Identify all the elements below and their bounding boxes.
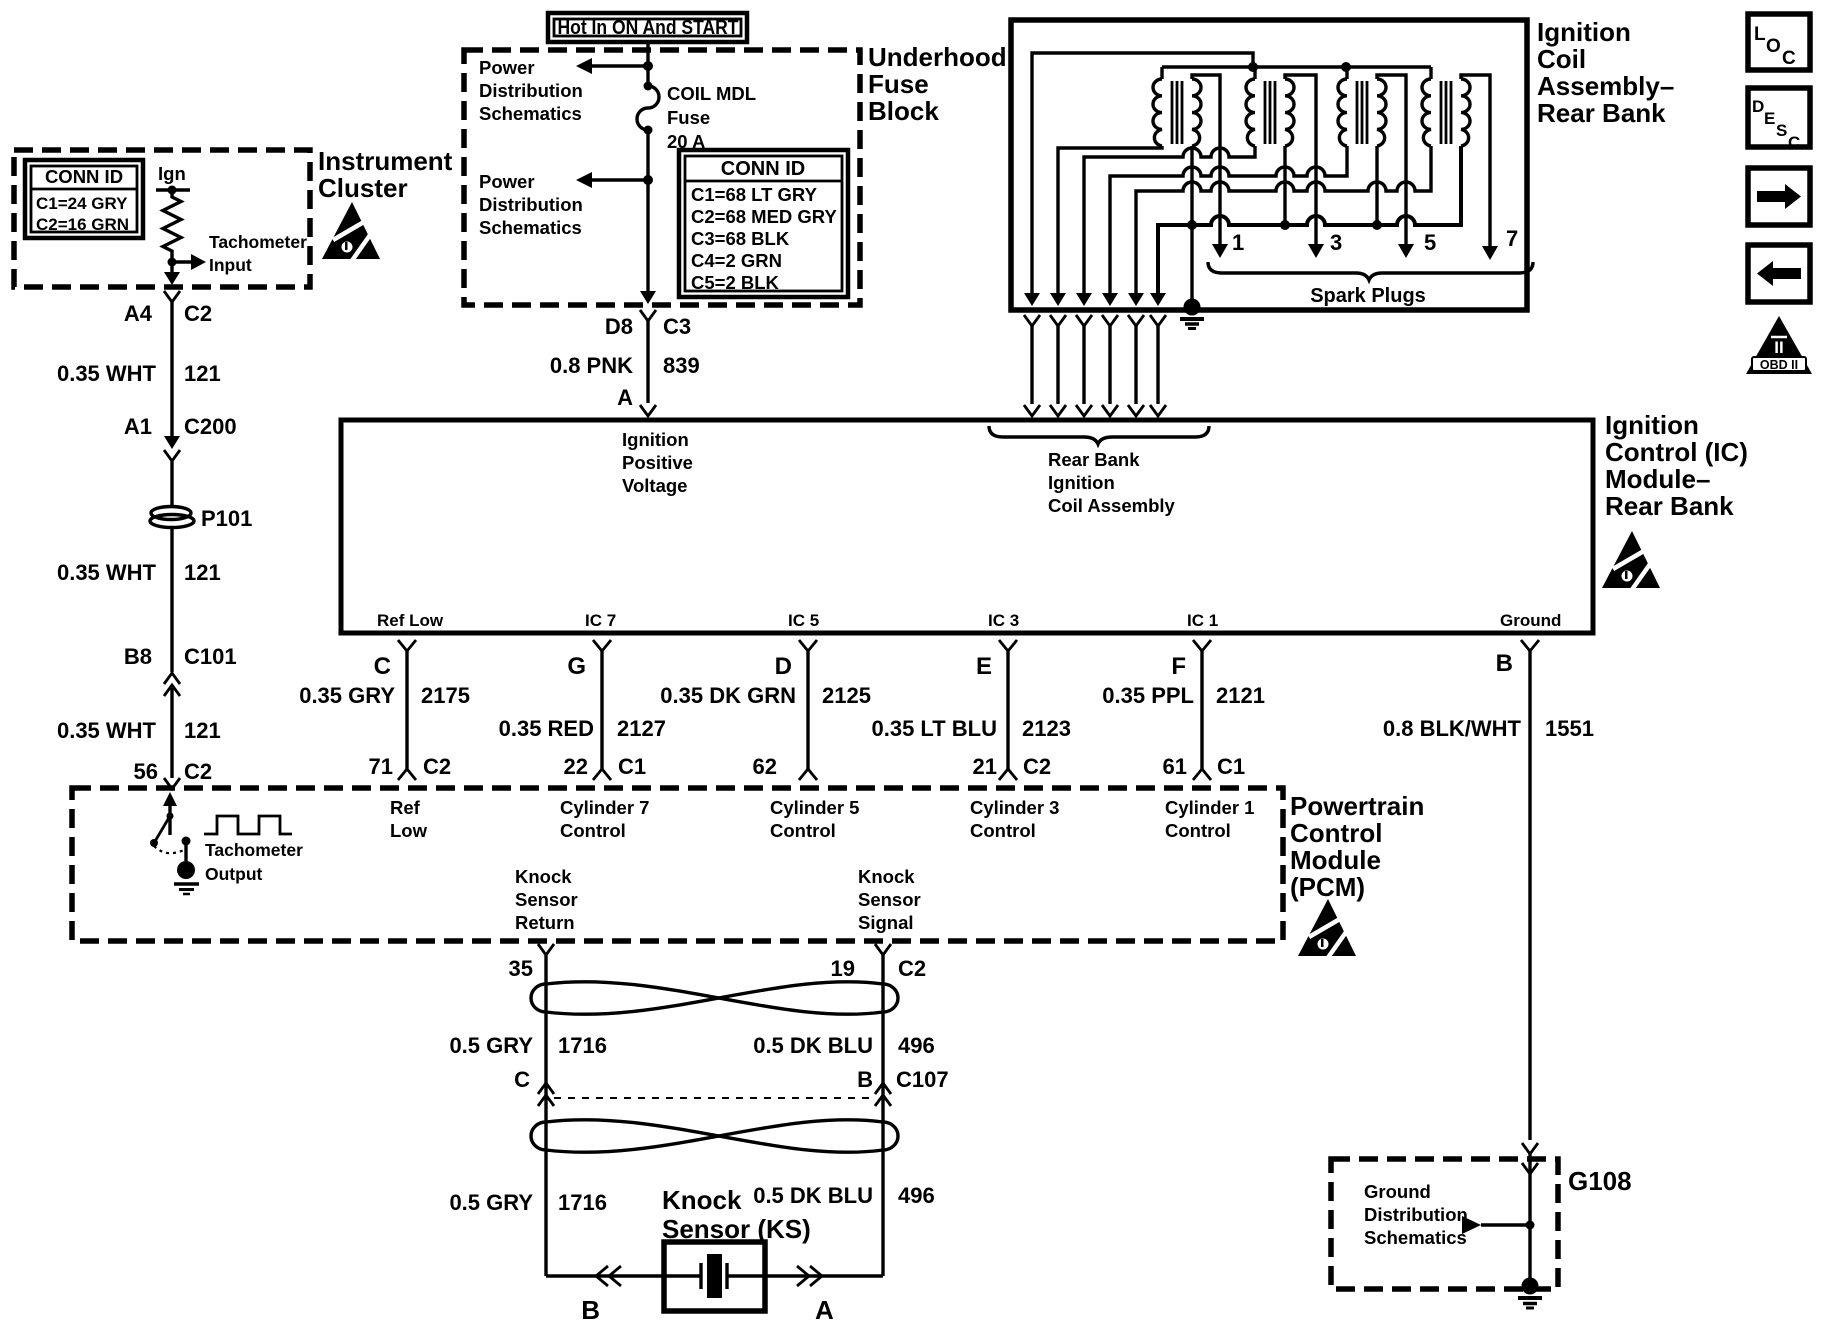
coil harness arrows at box bottom [1024, 293, 1166, 306]
svg-text:Ignition: Ignition [622, 429, 689, 450]
svg-text:Schematics: Schematics [479, 217, 582, 238]
svg-text:C101: C101 [184, 644, 237, 669]
svg-text:0.35 WHT: 0.35 WHT [57, 361, 157, 386]
coil harness pins into IC module [1024, 405, 1166, 416]
svg-text:E: E [976, 653, 992, 680]
wire labels 1716 / 496 upper [449, 1033, 948, 1092]
wire coil T3 control [1110, 146, 1347, 303]
svg-text:C2: C2 [184, 301, 212, 326]
svg-text:Fuse: Fuse [667, 107, 710, 128]
spark plug wire arrows [1212, 226, 1518, 260]
svg-text:Hot In ON And START: Hot In ON And START [558, 17, 739, 39]
wire from hot box [646, 42, 649, 84]
svg-text:1716: 1716 [558, 1033, 607, 1058]
svg-text:Input: Input [209, 255, 252, 275]
svg-text:Cylinder 3: Cylinder 3 [970, 797, 1059, 818]
svg-text:Ground: Ground [1364, 1181, 1431, 1202]
svg-text:E: E [1764, 109, 1775, 128]
svg-text:61: 61 [1163, 754, 1187, 779]
wire 121 segment 2 [57, 527, 237, 672]
svg-text:Cylinder 5: Cylinder 5 [770, 797, 859, 818]
knock sensor return wire top [509, 944, 554, 1276]
svg-text:Low: Low [390, 820, 428, 841]
wire 839 PNK [550, 321, 700, 410]
svg-text:71: 71 [369, 754, 393, 779]
svg-text:3: 3 [1330, 230, 1342, 255]
svg-text:0.35 WHT: 0.35 WHT [57, 560, 157, 585]
ignition coil T4 (plug 7) [1422, 67, 1490, 249]
wire coil feed 1 [1032, 53, 1253, 303]
svg-text:2175: 2175 [421, 683, 470, 708]
svg-text:C1=68 LT GRY: C1=68 LT GRY [691, 184, 818, 205]
brace rear bank coil assembly [989, 426, 1209, 516]
label Underhood Fuse Block [868, 42, 1007, 126]
svg-text:IC 1: IC 1 [1187, 611, 1218, 630]
spark plugs brace [1208, 262, 1533, 307]
svg-text:Rear Bank: Rear Bank [1048, 449, 1140, 470]
knock sensor signal wire top [831, 944, 927, 1276]
twisted pair 1 [531, 982, 898, 1015]
svg-text:A: A [815, 1295, 834, 1325]
svg-text:OBD II: OBD II [1760, 358, 1798, 372]
svg-text:Control: Control [1165, 820, 1231, 841]
svg-text:0.35 WHT: 0.35 WHT [57, 718, 157, 743]
svg-text:0.35 GRY: 0.35 GRY [299, 683, 395, 708]
label Ignition Coil Assembly Rear Bank [1537, 17, 1674, 128]
icon arrow right [1748, 168, 1810, 225]
svg-text:A1: A1 [124, 414, 152, 439]
svg-text:Rear Bank: Rear Bank [1605, 491, 1734, 521]
pin A into IC module [640, 405, 656, 416]
wire below fuse [646, 130, 649, 295]
svg-text:Rear Bank: Rear Bank [1537, 98, 1666, 128]
svg-text:Control: Control [770, 820, 836, 841]
svg-text:0.5 DK BLU: 0.5 DK BLU [753, 1183, 873, 1208]
wire coil T2 control [1084, 146, 1255, 303]
svg-text:IC 7: IC 7 [585, 611, 616, 630]
svg-text:121: 121 [184, 718, 221, 743]
label Ground Distribution Schematics [1364, 1181, 1468, 1248]
svg-text:Cylinder 7: Cylinder 7 [560, 797, 649, 818]
svg-text:S: S [1776, 121, 1787, 140]
power distribution tap 1 [479, 57, 653, 124]
svg-text:0.35 RED: 0.35 RED [499, 716, 594, 741]
ignition coil assembly box [1011, 20, 1527, 310]
wire out of instrument cluster [164, 262, 180, 285]
svg-text:Block: Block [868, 96, 939, 126]
label Ignition Control (IC) Module Rear Bank [1605, 410, 1748, 521]
svg-text:A: A [617, 385, 633, 410]
svg-text:A4: A4 [124, 301, 153, 326]
svg-text:(PCM): (PCM) [1290, 872, 1365, 902]
svg-text:C1: C1 [618, 754, 646, 779]
svg-text:121: 121 [184, 361, 221, 386]
svg-text:Positive: Positive [622, 452, 693, 473]
svg-text:0.5 DK BLU: 0.5 DK BLU [753, 1033, 873, 1058]
wire 121 segment 1 [57, 301, 237, 439]
svg-text:Cylinder 1: Cylinder 1 [1165, 797, 1254, 818]
svg-text:C107: C107 [896, 1067, 949, 1092]
svg-text:D: D [1752, 97, 1764, 116]
wire coil T4 control [1136, 146, 1431, 303]
svg-text:Control: Control [970, 820, 1036, 841]
ignition coil T2 (plug 3) [1246, 67, 1316, 247]
square wave glyph [204, 816, 303, 884]
svg-text:C4=2 GRN: C4=2 GRN [691, 250, 782, 271]
CONN ID table (underhood fuse block) [679, 150, 848, 297]
svg-text:Assembly–: Assembly– [1537, 71, 1674, 101]
svg-text:Distribution: Distribution [479, 194, 583, 215]
svg-text:496: 496 [898, 1033, 935, 1058]
coil harness connectors below box [1024, 315, 1166, 326]
svg-text:Ground: Ground [1500, 611, 1561, 630]
svg-text:C: C [514, 1067, 530, 1092]
svg-text:G: G [567, 653, 586, 680]
svg-text:Output: Output [205, 864, 263, 884]
svg-text:C: C [374, 653, 391, 680]
svg-text:0.35 PPL: 0.35 PPL [1102, 683, 1194, 708]
svg-text:Voltage: Voltage [622, 475, 687, 496]
splice P101 [150, 506, 252, 531]
svg-text:IC 5: IC 5 [788, 611, 819, 630]
connector C101 [164, 673, 180, 696]
svg-text:G108: G108 [1568, 1166, 1632, 1196]
svg-text:Knock: Knock [662, 1185, 742, 1215]
svg-text:5: 5 [1424, 230, 1436, 255]
svg-text:Knock: Knock [515, 866, 572, 887]
svg-text:Schematics: Schematics [479, 103, 582, 124]
label Knock Sensor (KS) [662, 1185, 811, 1244]
svg-text:Ignition: Ignition [1605, 410, 1699, 440]
pin C wire 2175 [299, 640, 470, 780]
svg-text:0.35 DK GRN: 0.35 DK GRN [660, 683, 796, 708]
svg-text:1716: 1716 [558, 1190, 607, 1215]
svg-text:Coil Assembly: Coil Assembly [1048, 495, 1176, 516]
label Powertrain Control Module (PCM) [1290, 791, 1424, 902]
svg-text:Module: Module [1290, 845, 1381, 875]
connector C200 [164, 436, 180, 461]
svg-text:0.8 BLK/WHT: 0.8 BLK/WHT [1383, 716, 1522, 741]
svg-text:35: 35 [509, 956, 533, 981]
connector C107 [538, 1083, 891, 1106]
svg-text:C200: C200 [184, 414, 237, 439]
svg-text:0.8 PNK: 0.8 PNK [550, 353, 633, 378]
PCM pin function labels [390, 797, 1254, 933]
svg-text:496: 496 [898, 1183, 935, 1208]
svg-text:C3=68 BLK: C3=68 BLK [691, 228, 790, 249]
label Instrument Cluster [318, 146, 453, 203]
svg-text:Tachometer: Tachometer [205, 840, 303, 860]
connector D8/C3 [605, 310, 691, 339]
svg-text:Distribution: Distribution [479, 80, 583, 101]
tachometer input arrow [168, 232, 308, 275]
icon LOC [1748, 14, 1810, 70]
knock sensor box [664, 1242, 765, 1311]
icon arrow left [1748, 245, 1810, 302]
svg-text:2121: 2121 [1216, 683, 1265, 708]
svg-text:Power: Power [479, 57, 535, 78]
svg-text:B8: B8 [124, 644, 152, 669]
svg-text:B: B [581, 1295, 600, 1325]
IC pin name labels [377, 611, 1561, 630]
svg-text:121: 121 [184, 560, 221, 585]
knock sensor bottom wires [546, 1274, 883, 1277]
IC module box [341, 420, 1593, 633]
instrument cluster dashed box [14, 150, 310, 287]
svg-text:Tachometer: Tachometer [209, 232, 307, 252]
pin B wire 1551 BLK/WHT [1383, 640, 1594, 1140]
svg-text:62: 62 [753, 754, 777, 779]
svg-text:C2: C2 [1023, 754, 1051, 779]
svg-text:F: F [1171, 653, 1186, 680]
svg-text:C2=68 MED GRY: C2=68 MED GRY [691, 206, 837, 227]
svg-text:O: O [1766, 36, 1781, 57]
icon DESC [1748, 88, 1810, 152]
CONN ID table (instrument cluster) [25, 160, 143, 238]
svg-text:C2: C2 [898, 956, 926, 981]
underhood fuse block dashed box [464, 50, 860, 305]
piezo element [664, 1254, 765, 1298]
svg-text:0.5 GRY: 0.5 GRY [449, 1033, 533, 1058]
svg-text:22: 22 [564, 754, 588, 779]
svg-text:Ignition: Ignition [1048, 472, 1115, 493]
svg-text:IC 3: IC 3 [988, 611, 1019, 630]
svg-text:2127: 2127 [617, 716, 666, 741]
pin D wire 2125 [660, 640, 871, 780]
power distribution tap 2 [479, 171, 653, 238]
node Ign [156, 163, 190, 195]
svg-text:Coil: Coil [1537, 44, 1586, 74]
fuse COIL MDL 20 A [637, 82, 756, 153]
svg-text:Distribution: Distribution [1364, 1204, 1468, 1225]
ground G108 [1518, 1278, 1542, 1309]
wire coil T1 control [1058, 146, 1162, 303]
svg-text:B: B [857, 1067, 873, 1092]
svg-text:C: C [1782, 48, 1796, 69]
ESD symbol (PCM) [1298, 899, 1356, 959]
svg-text:P101: P101 [201, 506, 252, 531]
svg-text:Power: Power [479, 171, 535, 192]
connector into G108 [1522, 1143, 1538, 1174]
svg-text:56: 56 [134, 759, 158, 784]
svg-text:C2: C2 [184, 759, 212, 784]
svg-text:C2: C2 [423, 754, 451, 779]
svg-text:Fuse: Fuse [868, 69, 929, 99]
wire secondary ground bus [1158, 146, 1461, 303]
svg-text:2123: 2123 [1022, 716, 1071, 741]
svg-text:Sensor: Sensor [858, 889, 921, 910]
tachometer output driver [150, 792, 199, 894]
resistor (tachometer input) [163, 190, 181, 258]
coil assembly ground [1180, 225, 1204, 329]
svg-text:Control (IC): Control (IC) [1605, 437, 1748, 467]
svg-text:II: II [1774, 338, 1783, 357]
svg-text:Spark Plugs: Spark Plugs [1310, 285, 1426, 307]
svg-text:CONN ID: CONN ID [45, 166, 123, 187]
ignition coil T1 (plug 1) [1153, 67, 1220, 247]
svg-text:0.5 GRY: 0.5 GRY [449, 1190, 533, 1215]
svg-text:0.35 LT BLU: 0.35 LT BLU [871, 716, 997, 741]
svg-text:Ref Low: Ref Low [377, 611, 444, 630]
svg-text:19: 19 [831, 956, 855, 981]
svg-text:Control: Control [1290, 818, 1382, 848]
svg-text:7: 7 [1506, 226, 1518, 251]
pin E wire 2123 [871, 640, 1070, 780]
svg-text:D8: D8 [605, 314, 633, 339]
svg-text:C1=24 GRY: C1=24 GRY [36, 194, 128, 213]
wire into ground [1528, 1154, 1531, 1280]
svg-text:Module–: Module– [1605, 464, 1710, 494]
svg-text:C2=16 GRN: C2=16 GRN [36, 215, 129, 234]
coil harness wires to IC module [1032, 326, 1158, 404]
terminal A arrows [797, 1266, 834, 1325]
svg-text:CONN ID: CONN ID [721, 158, 805, 180]
svg-text:Knock: Knock [858, 866, 915, 887]
wire labels 1716 / 496 lower [449, 1183, 934, 1215]
svg-text:Control: Control [560, 820, 626, 841]
ignition coil T3 (plug 5) [1338, 67, 1406, 247]
svg-text:Ignition: Ignition [1537, 17, 1631, 47]
label Ignition Positive Voltage [622, 429, 693, 496]
svg-text:Ref: Ref [390, 797, 421, 818]
svg-text:C: C [1788, 133, 1800, 152]
svg-text:1551: 1551 [1545, 716, 1594, 741]
svg-text:B: B [1496, 650, 1513, 677]
connector pin 56 into PCM [164, 778, 180, 789]
svg-text:Cluster: Cluster [318, 173, 408, 203]
arrow out of fuse block [640, 291, 656, 304]
svg-text:L: L [1754, 24, 1766, 45]
connector chevron 56/C2 top [164, 291, 180, 302]
PCM dashed box [72, 788, 1283, 941]
pin F wire 2121 [1102, 640, 1265, 780]
svg-text:Return: Return [515, 912, 575, 933]
terminal B arrows [581, 1266, 621, 1325]
svg-text:Ign: Ign [158, 163, 186, 184]
svg-text:Instrument: Instrument [318, 146, 453, 176]
svg-text:839: 839 [663, 353, 700, 378]
wire 121 segment 3 [57, 688, 221, 784]
svg-text:Signal: Signal [858, 912, 914, 933]
svg-text:D: D [775, 653, 792, 680]
svg-text:1: 1 [1232, 230, 1244, 255]
wire to P101 [170, 461, 173, 507]
primary top bus [1162, 62, 1431, 72]
ESD symbol (IC module) [1602, 531, 1660, 591]
G108 dashed box [1331, 1159, 1632, 1289]
twisted pair 2 [531, 1120, 898, 1153]
svg-text:C5=2 BLK: C5=2 BLK [691, 272, 780, 293]
ESD symbol (instrument cluster) [322, 202, 380, 262]
svg-text:Sensor: Sensor [515, 889, 578, 910]
Hot In ON And START box [548, 13, 747, 42]
svg-text:COIL MDL: COIL MDL [667, 83, 756, 104]
svg-text:21: 21 [973, 754, 997, 779]
svg-text:Schematics: Schematics [1364, 1227, 1467, 1248]
pin G wire 2127 [499, 640, 666, 780]
icon OBD II triangle [1746, 316, 1812, 374]
svg-text:Underhood: Underhood [868, 42, 1007, 72]
ground distribution tap [1462, 1216, 1535, 1234]
svg-text:C3: C3 [663, 314, 691, 339]
svg-text:C1: C1 [1217, 754, 1245, 779]
svg-text:Powertrain: Powertrain [1290, 791, 1424, 821]
svg-text:2125: 2125 [822, 683, 871, 708]
